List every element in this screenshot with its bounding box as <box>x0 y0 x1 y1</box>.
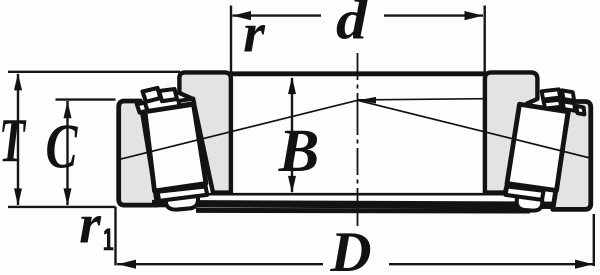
wire: cage rim silhouette line bottom <box>196 208 530 214</box>
dimension line d right segment <box>384 14 483 16</box>
contact line left <box>120 100 358 159</box>
tapered roller left <box>145 104 206 191</box>
arrowhead C down <box>64 188 72 206</box>
arrowhead T down <box>14 188 22 206</box>
apex leader line <box>358 99 485 100</box>
svg-text:r: r <box>243 2 266 64</box>
cage right top piece 4 <box>563 101 576 110</box>
inner ring cone right section <box>485 72 538 192</box>
svg-text:T: T <box>0 107 26 175</box>
wire: cup back-face band across bottom <box>152 204 557 206</box>
arrowhead C up <box>64 101 72 119</box>
dimension T extension line top <box>8 71 180 73</box>
wire: bearing top face line across bore gap <box>228 71 487 76</box>
svg-text:D: D <box>329 221 371 275</box>
svg-text:d: d <box>336 0 368 51</box>
dimension D witness line right <box>593 214 595 266</box>
cage left top piece 4 <box>179 99 195 106</box>
arrowhead B up <box>288 77 296 95</box>
arrowhead d right <box>465 11 484 20</box>
cage right top piece 2 <box>562 90 574 101</box>
arrowhead D right <box>575 260 594 269</box>
tapered roller right <box>507 104 568 190</box>
cage left top piece 2 <box>143 88 161 102</box>
extension line bottom shared T C <box>8 206 116 208</box>
dimension d extension line left <box>230 6 232 78</box>
label r1 subscript 1 <box>104 228 114 250</box>
witness line r1 corner <box>114 207 116 266</box>
centerline axis <box>357 53 359 226</box>
dimension d extension line right <box>484 6 486 78</box>
cage right top piece 5 <box>576 106 584 115</box>
outer ring cup right section <box>553 102 591 210</box>
svg-text:C: C <box>46 111 79 182</box>
cage left bottom strip <box>158 186 208 201</box>
dimension line d left segment <box>233 14 322 16</box>
arrowhead T up <box>14 73 22 91</box>
cage right bottom strip <box>506 186 544 200</box>
cage left top piece 1 <box>137 103 148 113</box>
svg-text:B: B <box>278 118 320 185</box>
arrowhead d left <box>233 11 252 20</box>
cage left top piece 3 <box>159 89 177 101</box>
dimension C extension stub <box>56 98 116 100</box>
cage right top piece 3 <box>544 100 562 109</box>
cage right top piece 1 <box>542 89 561 99</box>
contact line right <box>358 100 591 158</box>
inner ring cone left section <box>179 72 231 192</box>
arrowhead B down <box>288 176 296 194</box>
dimension line T <box>17 74 19 205</box>
dimension line D right segment <box>389 263 594 265</box>
apex leader arrowhead <box>359 97 377 104</box>
dimension line D left segment <box>117 263 323 265</box>
outer ring cup left section <box>119 101 158 205</box>
wire: cone front-face silhouette line <box>199 193 527 196</box>
dimension line C <box>66 101 68 205</box>
cage right bottom hook <box>517 196 543 211</box>
svg-text:r: r <box>79 194 102 256</box>
arrowhead D left <box>118 260 137 269</box>
cage left bottom hook <box>166 194 198 210</box>
dimension line B <box>291 78 293 192</box>
